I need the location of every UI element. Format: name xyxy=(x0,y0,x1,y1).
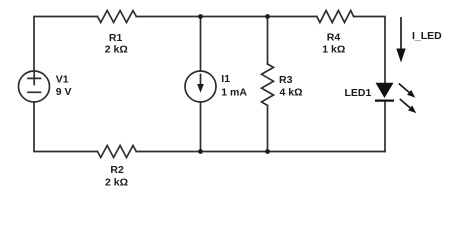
voltage source V1 circle xyxy=(19,71,50,102)
wire bottom-left from R2 to V1 xyxy=(34,102,98,151)
LED1 cathode bar xyxy=(375,99,394,101)
LED1 light arrow upper xyxy=(399,84,415,98)
svg-text:R3: R3 xyxy=(279,74,293,86)
LED1 light arrow lower xyxy=(400,99,416,113)
node junction top I1 xyxy=(198,14,203,19)
node junction top R3 xyxy=(265,14,270,19)
svg-text:2 kΩ: 2 kΩ xyxy=(105,44,128,56)
I1 arrow shaft xyxy=(200,75,202,86)
resistor R3 xyxy=(262,64,274,106)
V1 minus sign xyxy=(28,91,41,93)
svg-text:2 kΩ: 2 kΩ xyxy=(105,177,128,189)
svg-text:R4: R4 xyxy=(327,31,341,43)
wire bottom-right from LED1 to R2 xyxy=(136,151,385,153)
LED1 triangle xyxy=(376,83,394,98)
svg-text:9 V: 9 V xyxy=(56,86,72,98)
wire R3 branch bottom xyxy=(267,106,269,152)
node junction bottom R3 xyxy=(265,149,270,154)
wire I1 branch bottom xyxy=(200,102,202,152)
wire top-right from R4 down to LED1 anode xyxy=(354,17,385,84)
svg-text:V1: V1 xyxy=(56,74,69,86)
current source I1 circle xyxy=(185,71,216,102)
wire LED1 cathode to bottom-right corner xyxy=(384,101,386,152)
wire I1 branch top xyxy=(200,17,202,72)
svg-text:LED1: LED1 xyxy=(345,87,372,99)
svg-text:R1: R1 xyxy=(109,32,123,44)
I1 arrow head xyxy=(197,84,204,93)
svg-text:1 kΩ: 1 kΩ xyxy=(322,44,345,56)
svg-text:I_LED: I_LED xyxy=(412,30,442,42)
wire top middle R1 to R4 xyxy=(136,16,316,18)
wire top-left from V1 to R1 xyxy=(34,17,98,71)
V1 plus sign xyxy=(28,72,41,84)
svg-text:1 mA: 1 mA xyxy=(221,86,247,98)
I_LED annotation arrow xyxy=(396,17,405,63)
resistor R2 xyxy=(98,146,137,158)
node junction bottom I1 xyxy=(198,149,203,154)
svg-text:4 kΩ: 4 kΩ xyxy=(280,86,303,98)
wire R3 branch top xyxy=(267,17,269,65)
svg-text:I1: I1 xyxy=(221,73,230,85)
resistor R1 xyxy=(98,11,137,23)
resistor R4 xyxy=(317,11,354,23)
svg-text:R2: R2 xyxy=(110,164,124,176)
